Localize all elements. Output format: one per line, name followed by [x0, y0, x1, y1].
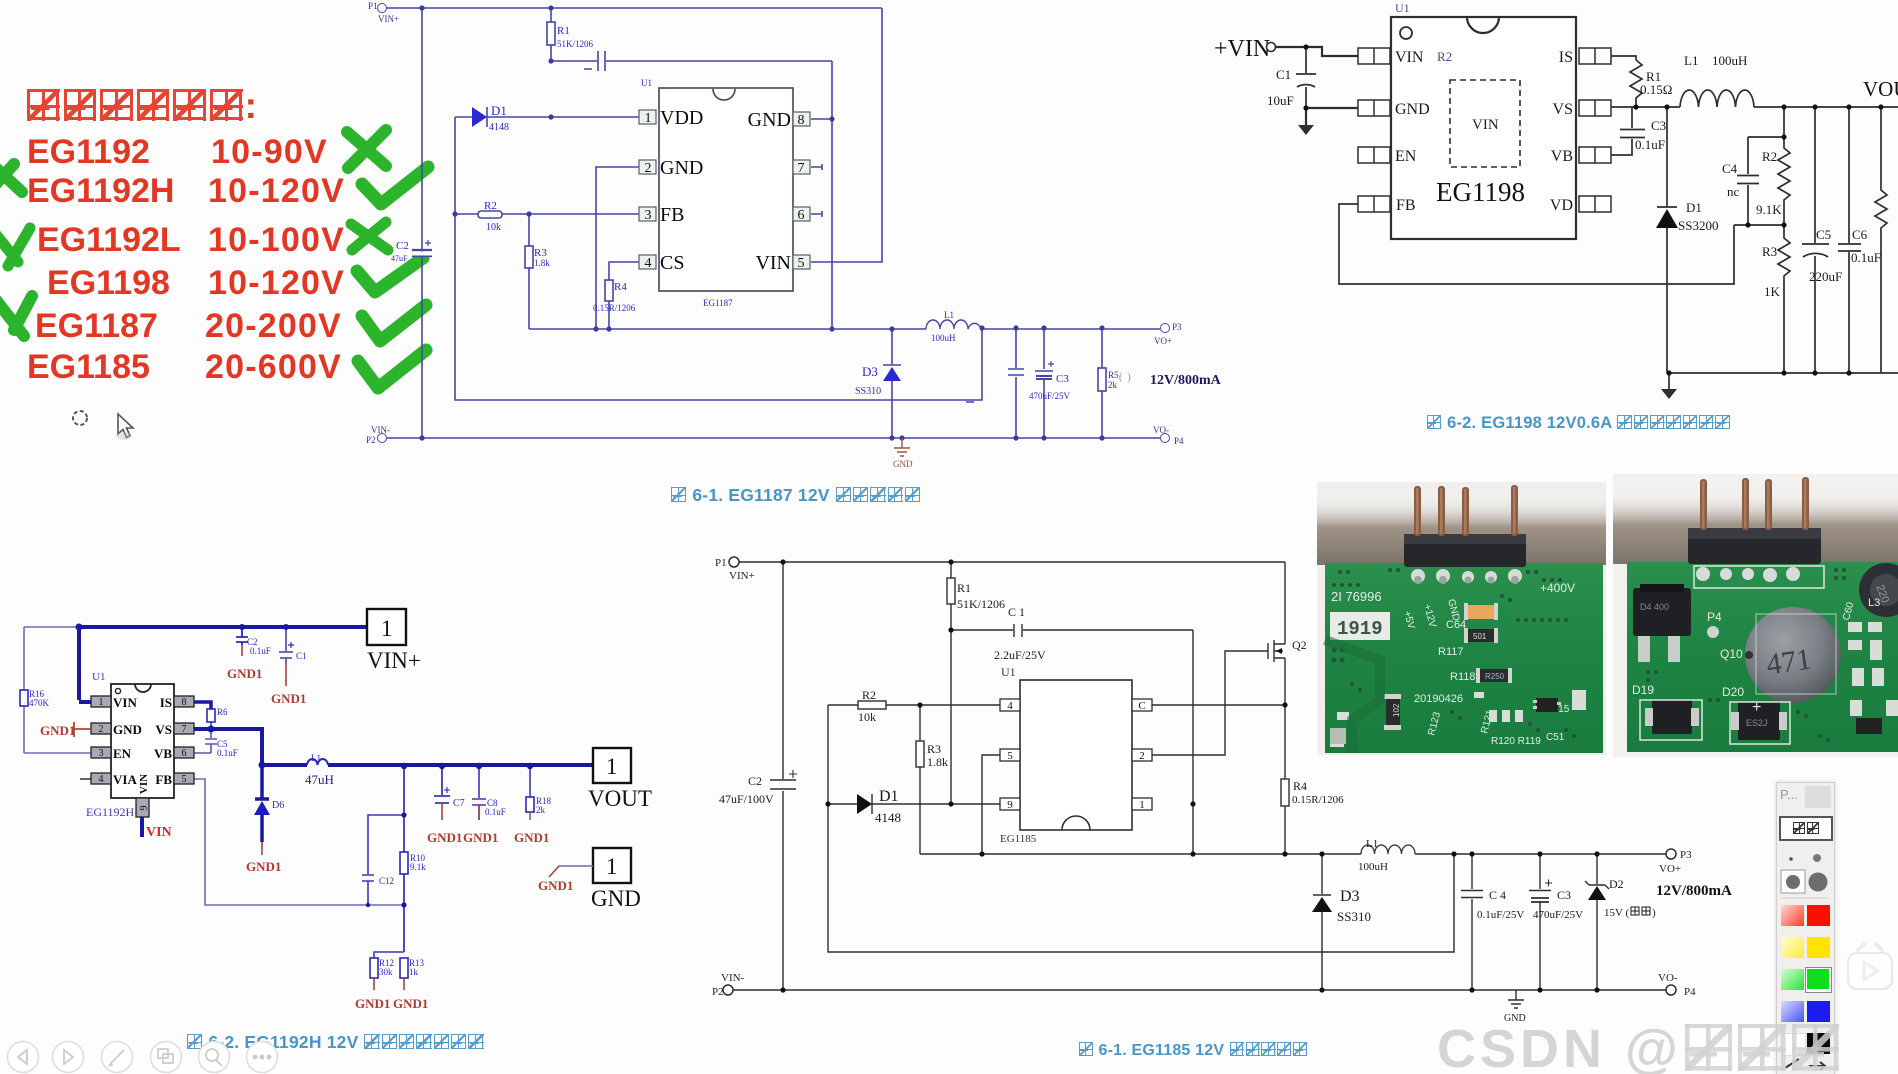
port VOUT box	[593, 748, 631, 783]
transistor Q2	[1268, 640, 1285, 662]
photo 2 silkscreen	[1632, 597, 1880, 716]
ground symbol	[894, 438, 910, 456]
wire VIN pin5 riser	[811, 8, 882, 262]
pin name labels	[660, 107, 791, 274]
wire pin1 riser thick	[79, 625, 91, 702]
wire switch rail	[529, 328, 1160, 330]
wire pin C to Q2 source	[1152, 704, 1285, 706]
wire GND pin2	[596, 167, 639, 329]
diode D1	[1657, 107, 1677, 373]
photo 1 pins	[1414, 485, 1518, 536]
wire pin2 to Q2 gate	[1152, 651, 1268, 755]
annotation toolbar	[1776, 782, 1835, 1074]
capacitor Cout	[1008, 328, 1024, 438]
resistor R2 zigzag	[1778, 107, 1790, 225]
photo 1 silkscreen texts	[1331, 581, 1575, 747]
pin 6 stub	[811, 211, 822, 217]
wire GND pin8	[811, 118, 832, 120]
wire top rail VIN+	[387, 7, 882, 9]
resistor R4	[608, 301, 610, 329]
capacitor C12 branch	[362, 815, 404, 905]
wire R16 EN loop	[24, 627, 91, 753]
terminal P4	[1161, 434, 1170, 443]
photo 2 background	[1613, 474, 1898, 757]
capacitor C5	[193, 729, 217, 753]
terminal P1	[729, 557, 739, 567]
chip U1 EG1185 body	[1020, 680, 1132, 830]
capacitor C1 bootstrap	[951, 624, 1193, 637]
photo 1 background	[1317, 482, 1606, 755]
GND port lead	[559, 865, 593, 867]
resistor R12 branch	[374, 952, 404, 958]
pin 7 stub	[811, 164, 822, 170]
diode D1	[828, 794, 1000, 814]
resistor R7 edge	[1875, 107, 1887, 373]
wire cap-to-gnd riser	[831, 61, 833, 329]
wire C2 branch	[421, 8, 423, 438]
photo 1 green board	[1325, 563, 1603, 753]
wire VS rail	[1611, 106, 1898, 108]
resistor R1 zigzag	[1630, 60, 1642, 107]
capacitor C7 electrolytic	[434, 765, 450, 803]
photo 1 smd components	[1468, 605, 1494, 619]
capacitor C4 out	[1461, 854, 1483, 990]
wire FB left vertical	[455, 117, 982, 400]
ground symbol stub	[1508, 990, 1524, 1008]
resistor R5	[1101, 328, 1103, 438]
node dots	[780, 559, 1599, 992]
resistor R3	[919, 705, 921, 854]
port GND box	[593, 848, 631, 883]
wire Q2 drain	[1284, 562, 1286, 644]
resistor R1	[950, 562, 952, 630]
photo 1 header block	[1404, 534, 1526, 567]
pin 9 VIN stub	[140, 817, 144, 837]
chip U1 EG1192H body	[111, 684, 174, 798]
photo 2 silk frames	[1640, 566, 1836, 744]
photo 2 green board	[1627, 562, 1898, 752]
node dots	[76, 624, 534, 908]
pin boxes	[1000, 699, 1152, 810]
ref labels blue	[29, 637, 552, 977]
wire VIN+ thick rail	[79, 625, 367, 629]
photo 2 header block	[1688, 528, 1821, 564]
terminal P3	[1161, 324, 1170, 333]
wire pin5 branch	[982, 755, 1000, 854]
ground arrow input	[1298, 125, 1314, 135]
pin numbers	[99, 697, 187, 785]
capacitor C2 ceramic	[236, 627, 248, 645]
pin boxes right	[174, 696, 194, 784]
resistor R10	[400, 852, 408, 874]
capacitor C3	[1611, 107, 1645, 155]
GND1 net labels red	[227, 666, 573, 1011]
inductor L1	[1680, 90, 1754, 107]
RED TEXT LIST	[25, 85, 257, 127]
diode D1	[455, 107, 639, 127]
pin numbers	[645, 111, 805, 271]
resistor R3	[528, 214, 530, 329]
ground arrow output	[1661, 389, 1677, 399]
capacitor C5	[1802, 107, 1829, 373]
value labels	[719, 581, 1624, 1024]
CSDN watermark	[1437, 1018, 1842, 1074]
wire FB loop	[1339, 204, 1734, 284]
wire fb node riser	[403, 765, 405, 952]
resistor R4	[1284, 705, 1286, 854]
wire switch rail	[920, 853, 1666, 855]
dashed VIN box	[1450, 80, 1520, 167]
wire R1 down to D1 line	[950, 630, 952, 804]
wire top rail	[739, 561, 1285, 563]
pin numbers	[1007, 700, 1145, 811]
capacitor C1 electrolytic	[279, 627, 293, 662]
capacitor C8	[472, 765, 486, 820]
terminal P2	[378, 434, 387, 443]
inductor L1	[1361, 845, 1415, 854]
capacitor C0 coupling	[551, 51, 832, 71]
resistor R1	[550, 8, 552, 61]
photo 2 big toroid inductor	[1745, 607, 1841, 703]
value labels	[1267, 53, 1881, 299]
wire bottom rail	[1669, 373, 1898, 389]
pin stub boxes right	[1579, 48, 1611, 212]
terminal labels	[366, 1, 1184, 446]
pin 9 box bottom	[136, 798, 149, 817]
chip U1 EG1198 body	[1391, 17, 1576, 239]
capacitor C2 plates	[412, 250, 432, 256]
photo 2 diodes bottom	[1652, 700, 1692, 734]
wire bottom rail	[387, 437, 1160, 439]
wire bottom rail	[733, 989, 1666, 991]
pin names	[1395, 49, 1573, 214]
resistor R6	[207, 709, 215, 722]
capacitor C4	[1737, 137, 1784, 225]
wire GND pin	[1306, 108, 1358, 125]
terminal P4	[1666, 985, 1676, 995]
terminal P3	[1666, 849, 1676, 859]
resistor R3 zigzag	[1778, 225, 1790, 373]
capacitor C3	[1035, 328, 1053, 438]
photo 2 right smd column	[1848, 622, 1898, 716]
wire Q2 source to R4	[1284, 658, 1286, 705]
photo 1 board edge trace	[1325, 640, 1380, 753]
GND1 pin2 tap	[74, 722, 91, 737]
port VIN+ box	[367, 609, 406, 645]
capacitor C2 input	[770, 562, 796, 990]
wire FB pin5 loop	[193, 779, 404, 905]
wire fb left vertical	[828, 705, 1454, 952]
pin names	[113, 695, 172, 787]
wire IS to R1	[1611, 56, 1636, 60]
photo 1 display window	[1330, 612, 1390, 640]
CAPTIONS	[670, 485, 921, 506]
wire CS pin4	[609, 262, 639, 280]
ref labels	[391, 25, 1131, 401]
terminal +VIN	[1267, 43, 1276, 52]
terminal labels	[712, 557, 1696, 998]
terminal P2	[723, 985, 733, 995]
resistor R16	[20, 690, 28, 706]
wire output rail thick	[262, 763, 593, 767]
capacitor C3 out	[1529, 854, 1551, 990]
pin 4 stub	[80, 778, 91, 780]
terminal P1	[378, 4, 387, 13]
diode D6	[255, 765, 269, 799]
node dots	[419, 5, 1104, 440]
photo 1 U15 sot chip	[1536, 698, 1558, 712]
inductor L1	[926, 320, 981, 329]
resistor R2	[828, 704, 1000, 706]
photo 2 TO252 transistor	[1633, 588, 1691, 636]
diode D3	[1313, 854, 1331, 990]
photo 2 blur shadow	[1613, 492, 1898, 564]
photo 1 blur shadow	[1317, 497, 1606, 565]
pin boxes left	[91, 696, 111, 784]
photo 1 via dots	[1332, 568, 1577, 738]
diode D2 zener	[1585, 854, 1609, 990]
photo 2 solder pads row	[1696, 567, 1800, 582]
wire C1 to pin1 riser	[1192, 630, 1194, 854]
wire +VIN input	[1276, 47, 1358, 56]
photo 1 small resistor cluster	[1330, 690, 1586, 747]
resistor R2	[455, 213, 639, 215]
pin stub boxes left	[1358, 48, 1390, 212]
node dots	[1303, 44, 1883, 375]
pin boxes right	[793, 112, 810, 269]
inductor L1	[307, 759, 328, 765]
op-amp U1 chip body	[659, 88, 793, 291]
capacitor C1	[1296, 47, 1316, 108]
node line R2/R3	[1734, 224, 1784, 226]
color swatches	[1781, 905, 1804, 926]
photo 1 solder pads row	[1411, 569, 1522, 583]
pin boxes left	[639, 110, 656, 269]
wire IS to R6	[193, 702, 211, 709]
resistor R13	[400, 958, 408, 978]
diode D3	[883, 329, 901, 438]
capacitor C6	[1838, 107, 1861, 373]
photo 2 small inductor top right	[1859, 563, 1898, 617]
wire VS rail thick	[193, 729, 262, 765]
resistor R18	[529, 765, 531, 797]
photo 2 pins	[1700, 477, 1809, 530]
